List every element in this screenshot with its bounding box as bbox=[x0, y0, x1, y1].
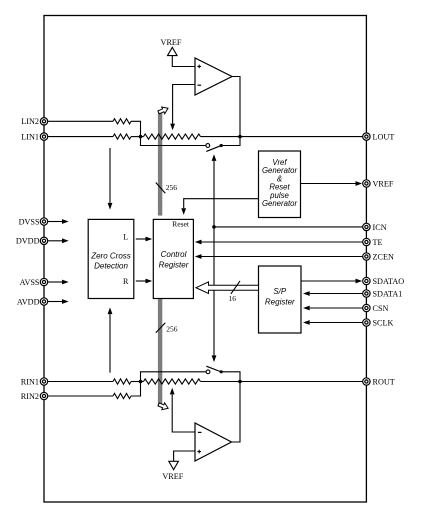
svg-text:LIN1: LIN1 bbox=[21, 133, 39, 142]
arrowhead ZCD R bbox=[146, 279, 153, 284]
wire zero-cross sense R arrow bbox=[109, 314, 111, 372]
op-amp U1 minus sign bbox=[198, 84, 202, 86]
op-amp U1 plus sign bbox=[197, 65, 201, 69]
block Zero Cross Detection bbox=[88, 219, 134, 298]
svg-text:Reset: Reset bbox=[172, 220, 190, 229]
switch R mute (open circle) bbox=[206, 370, 210, 374]
svg-text:R: R bbox=[123, 277, 129, 286]
wire RIN2 to resistor bbox=[48, 395, 113, 397]
pin TE bbox=[363, 238, 383, 247]
wire ZCD R to control register bbox=[136, 280, 146, 282]
wire ZCD L to control register bbox=[136, 238, 146, 240]
op-amp U2 plus sign bbox=[197, 450, 201, 454]
svg-text:Register: Register bbox=[265, 298, 295, 307]
pin SDATAO bbox=[363, 277, 405, 286]
pin SDATA1 bbox=[363, 289, 403, 298]
op-amp U2 minus sign bbox=[198, 431, 202, 433]
bus 256 lower slash bbox=[156, 323, 166, 333]
wire LIN1 to resistor bbox=[48, 136, 113, 138]
wire junction to pot R bbox=[141, 381, 144, 383]
node R input junction bbox=[139, 380, 143, 384]
svg-text:L: L bbox=[123, 233, 128, 242]
arrowhead switch control top bbox=[212, 154, 217, 161]
svg-text:VREF: VREF bbox=[162, 472, 183, 481]
svg-text:VREF: VREF bbox=[373, 179, 394, 188]
pin LIN2 bbox=[21, 117, 47, 126]
switch R blade bbox=[206, 366, 220, 371]
svg-text:S/P: S/P bbox=[273, 287, 287, 296]
wire ROUT bbox=[240, 381, 363, 383]
svg-text:AVSS: AVSS bbox=[20, 278, 40, 287]
pin DVDD bbox=[16, 237, 48, 246]
arrowhead TE bbox=[195, 240, 202, 245]
svg-text:Detection: Detection bbox=[94, 261, 128, 270]
resistor LIN2 input bbox=[113, 119, 131, 124]
pin LOUT bbox=[363, 133, 395, 142]
svg-text:16: 16 bbox=[229, 294, 237, 303]
wire pot L to output node bbox=[201, 136, 241, 138]
bus 256 lower wiper open arrow bbox=[157, 401, 169, 412]
svg-text:LOUT: LOUT bbox=[373, 133, 395, 142]
block S/P Register bbox=[259, 266, 302, 333]
arrowhead zero-cross sense R bbox=[108, 307, 113, 314]
node L switch contact bbox=[220, 144, 223, 147]
svg-text:TE: TE bbox=[373, 238, 383, 247]
svg-text:DVDD: DVDD bbox=[16, 237, 40, 246]
wire L bypass right bbox=[221, 137, 240, 146]
svg-text:RIN1: RIN1 bbox=[21, 377, 39, 386]
svg-text:SDATAO: SDATAO bbox=[373, 277, 405, 286]
pin ICN bbox=[363, 223, 387, 232]
wire LIN1 resistor to junction bbox=[131, 136, 141, 138]
svg-text:256: 256 bbox=[166, 183, 178, 192]
pin VREF bbox=[363, 179, 394, 188]
wire SCLK to S/P register bbox=[310, 322, 363, 324]
VREF supply symbol bottom bbox=[162, 461, 183, 481]
wire U1 output bbox=[232, 77, 240, 137]
resistor LIN1 input bbox=[113, 134, 131, 139]
block Vref Generator and Reset pulse Generator bbox=[259, 151, 301, 218]
label Vref Generator bbox=[262, 158, 298, 208]
wire RIN1 resistor to junction bbox=[131, 381, 141, 383]
wire DVDD arrow bbox=[48, 240, 62, 242]
switch L mute (open circle) bbox=[206, 144, 210, 148]
svg-text:Control: Control bbox=[161, 250, 187, 259]
node L output junction bbox=[238, 135, 242, 139]
bus 256 upper wiper open arrow bbox=[157, 105, 169, 116]
resistor pot L string bbox=[144, 134, 201, 139]
wire TE to control register bbox=[202, 241, 363, 243]
node R output junction bbox=[238, 380, 242, 384]
svg-text:CSN: CSN bbox=[373, 304, 389, 313]
arrowhead SDATA1 bbox=[303, 291, 310, 296]
arrowhead AVSS bbox=[62, 280, 69, 285]
bus 256 upper slash bbox=[156, 183, 166, 194]
pin SCLK bbox=[363, 318, 394, 327]
arrowhead reset into control register bbox=[181, 208, 186, 215]
resistor RIN1 input bbox=[113, 379, 131, 384]
wire AVDD arrow bbox=[48, 301, 62, 303]
arrowhead SCLK bbox=[303, 320, 310, 325]
svg-text:SCLK: SCLK bbox=[373, 318, 394, 327]
chip outline bbox=[44, 16, 366, 503]
wire junction to pot L bbox=[141, 136, 144, 138]
bus 256 lower gray bar bbox=[158, 298, 162, 406]
node L input junction bbox=[139, 135, 143, 139]
wire LIN2 resistor to junction bbox=[131, 121, 141, 136]
wire RIN2 resistor to junction bbox=[131, 382, 141, 397]
block Control Register bbox=[153, 219, 193, 298]
node R switch contact bbox=[220, 370, 223, 373]
svg-text:Generator: Generator bbox=[262, 199, 298, 208]
pin RIN2 bbox=[21, 392, 48, 401]
wire SDATAO from S/P register bbox=[301, 280, 356, 282]
VREF supply symbol top bbox=[161, 38, 182, 56]
wire VREF to U1 plus input bbox=[172, 56, 195, 67]
svg-text:ICN: ICN bbox=[373, 223, 387, 232]
arrowhead AVDD bbox=[62, 299, 69, 304]
pin ROUT bbox=[363, 377, 395, 386]
bus 16 slash bbox=[231, 281, 240, 294]
wire LIN2 to resistor bbox=[48, 120, 113, 122]
node ICN junction bbox=[212, 225, 216, 229]
svg-text:Register: Register bbox=[159, 261, 189, 270]
op-amp U1 (left channel) bbox=[195, 58, 232, 95]
svg-text:LIN2: LIN2 bbox=[21, 117, 39, 126]
pin ZCEN bbox=[363, 252, 394, 261]
pin LIN1 bbox=[21, 133, 47, 142]
svg-text:DVSS: DVSS bbox=[19, 217, 40, 226]
wire reset pulse to control register bbox=[184, 199, 259, 209]
bus 16 open arrow to control register bbox=[196, 282, 259, 294]
wire R bypass right bbox=[221, 372, 240, 382]
svg-text:VREF: VREF bbox=[161, 38, 182, 47]
svg-text:AVDD: AVDD bbox=[17, 297, 40, 306]
op-amp U2 (right channel) bbox=[195, 423, 232, 461]
pin AVDD bbox=[17, 297, 48, 306]
arrowhead ZCD L bbox=[146, 237, 153, 242]
pin CSN bbox=[363, 304, 389, 313]
wire U2 output bbox=[232, 382, 241, 443]
svg-text:Zero Cross: Zero Cross bbox=[90, 252, 131, 261]
wire Vref Generator to VREF pin bbox=[301, 183, 356, 185]
wire zero-cross sense L arrow bbox=[109, 148, 111, 203]
wire switch control line bbox=[213, 161, 215, 356]
wire L bypass left bbox=[141, 137, 206, 146]
arrowhead VREF pin bbox=[356, 181, 363, 186]
svg-text:256: 256 bbox=[166, 325, 178, 334]
pin DVSS bbox=[19, 217, 48, 226]
arrowhead DVDD bbox=[62, 238, 69, 243]
pin RIN1 bbox=[21, 377, 48, 386]
svg-text:RIN2: RIN2 bbox=[21, 392, 39, 401]
arrowhead DVSS bbox=[62, 219, 69, 224]
arrowhead SDATAO bbox=[356, 279, 363, 284]
wire CSN to S/P register bbox=[310, 307, 363, 309]
wire ICN to control line bbox=[214, 226, 363, 228]
wire AVSS arrow bbox=[48, 281, 62, 283]
wire U2 plus input to VREF bbox=[174, 451, 195, 461]
resistor RIN2 input bbox=[113, 393, 131, 398]
svg-text:SDATA1: SDATA1 bbox=[373, 289, 403, 298]
wire DVSS arrow bbox=[48, 221, 62, 223]
wire pot R to output node bbox=[201, 381, 241, 383]
wiper arrow L bbox=[170, 124, 175, 131]
switch L blade bbox=[206, 146, 220, 152]
svg-text:ZCEN: ZCEN bbox=[373, 252, 394, 261]
wire RIN1 to resistor bbox=[48, 381, 113, 383]
wire U1 minus input to wiper bbox=[173, 85, 195, 124]
wire LOUT bbox=[240, 136, 363, 138]
pin AVSS bbox=[20, 278, 48, 287]
wire ZCEN to control register bbox=[202, 256, 363, 258]
arrowhead switch control bottom bbox=[212, 355, 217, 362]
wire U2 minus input to wiper bbox=[172, 395, 195, 433]
wiper arrow R bbox=[170, 388, 175, 395]
wire SDATA1 to S/P register bbox=[310, 293, 363, 295]
arrowhead CSN bbox=[303, 306, 310, 311]
wire R bypass left bbox=[141, 372, 207, 382]
bus 256 upper gray bar bbox=[158, 110, 162, 216]
resistor pot R string bbox=[144, 379, 201, 384]
arrowhead ZCEN bbox=[195, 254, 202, 259]
arrowhead zero-cross sense L bbox=[108, 203, 113, 210]
svg-text:ROUT: ROUT bbox=[373, 377, 395, 386]
